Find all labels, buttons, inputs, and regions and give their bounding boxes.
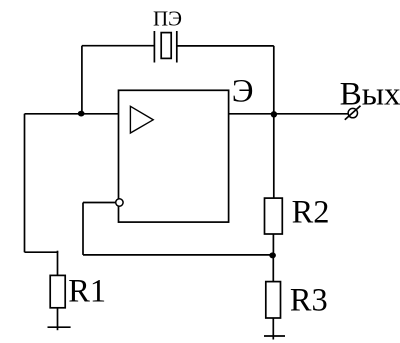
wire: R3 bottom lead	[272, 318, 274, 340]
output terminal slash	[345, 106, 361, 120]
wire: inverting feedback vertical down	[82, 203, 84, 255]
wire: left rail horizontal to R1 lead	[25, 251, 59, 253]
ground bar below R3	[264, 335, 285, 337]
resistor R3 body	[266, 282, 281, 318]
node A junction dot	[78, 111, 85, 117]
wire: right rail vertical down to R2	[273, 46, 275, 198]
wire: feedback top horizontal to crystal	[82, 45, 154, 47]
wire: main input horizontal to op-amp	[25, 113, 119, 115]
wire: op-amp output to terminal	[229, 113, 348, 115]
resistor R1 body	[50, 275, 65, 307]
wire: R3 top lead	[272, 255, 274, 282]
svg-text:Вых: Вых	[340, 76, 400, 113]
svg-text:R3: R3	[290, 282, 328, 318]
ground bar below R1	[48, 326, 71, 328]
node C junction dot	[269, 252, 276, 258]
wire: inverting input to left	[83, 202, 115, 204]
piezoelectric element PE left plate	[153, 31, 155, 63]
svg-text:R1: R1	[68, 273, 106, 309]
wire: left rail vertical down	[24, 114, 26, 252]
svg-text:ПЭ: ПЭ	[153, 7, 182, 31]
resistor R2 body	[265, 198, 283, 234]
wire: crystal right plate to right rail	[177, 45, 274, 47]
op-amp U1 inverting input circle	[116, 199, 123, 206]
svg-text:R2: R2	[292, 195, 330, 231]
wire: feedback vertical up from node A	[81, 46, 83, 114]
piezoelectric element PE body rectangle	[161, 33, 171, 59]
node B junction dot	[271, 111, 277, 117]
svg-text:Э: Э	[232, 73, 254, 109]
output terminal circle	[348, 108, 357, 117]
op-amp U1 body rectangle	[119, 90, 229, 222]
op-amp U1 gain triangle	[130, 106, 153, 133]
wire: inverting feedback horizontal to node C	[83, 254, 273, 256]
wire: R1 bottom lead	[57, 308, 59, 330]
piezoelectric element PE right plate	[176, 31, 178, 63]
wire: R1 top lead	[57, 251, 59, 276]
wire: R2 bottom lead	[272, 234, 274, 255]
